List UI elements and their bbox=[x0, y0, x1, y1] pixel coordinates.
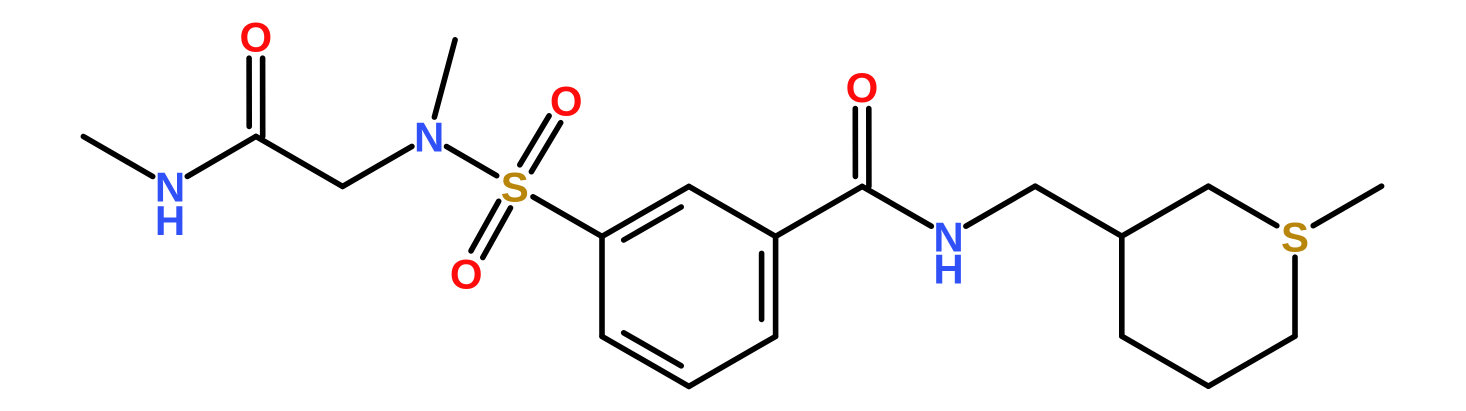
svg-text:S: S bbox=[501, 164, 529, 211]
svg-text:O: O bbox=[550, 78, 583, 125]
svg-text:N: N bbox=[414, 114, 444, 161]
svg-text:S: S bbox=[1281, 213, 1309, 260]
svg-text:O: O bbox=[450, 251, 483, 298]
svg-text:H: H bbox=[155, 197, 185, 244]
svg-text:H: H bbox=[933, 246, 963, 293]
svg-text:O: O bbox=[846, 64, 879, 111]
svg-text:O: O bbox=[239, 13, 272, 60]
